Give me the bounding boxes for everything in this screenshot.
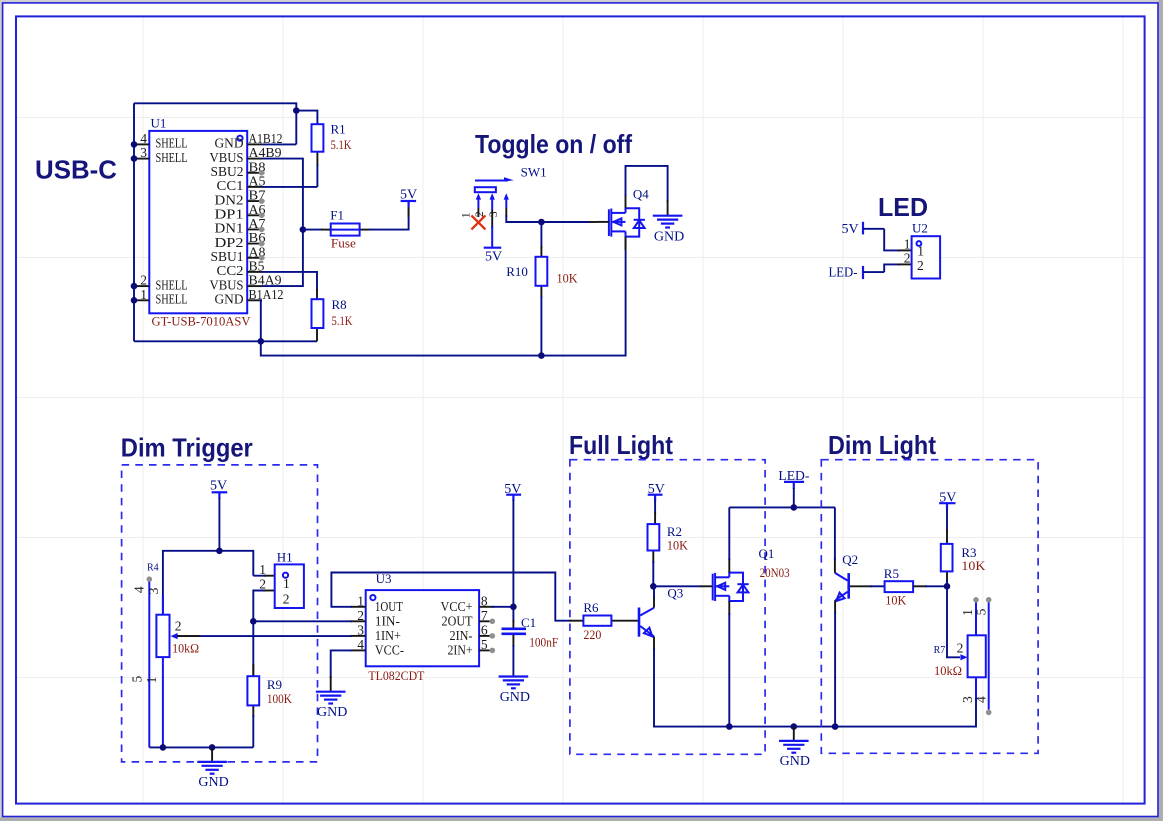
wire LED- to U2 pin2 bbox=[884, 264, 900, 272]
ground (U3) bbox=[316, 692, 347, 721]
wire Q1 source down bbox=[728, 613, 730, 727]
wire 1IN- run bbox=[253, 620, 352, 622]
wire VBUS vertical bbox=[262, 159, 303, 287]
resistor R6 bbox=[570, 600, 639, 642]
svg-text:VBUS: VBUS bbox=[210, 150, 244, 165]
wire H1 pin2 riser bbox=[253, 591, 266, 622]
svg-text:2: 2 bbox=[259, 577, 266, 592]
U1 left pin stubs bbox=[134, 144, 149, 300]
svg-text:VCC-: VCC- bbox=[375, 643, 404, 658]
svg-text:10K: 10K bbox=[961, 558, 986, 573]
junction dot R3 node bbox=[944, 583, 951, 590]
wire gate node to Q4 bbox=[541, 221, 590, 223]
wire wiper 1IN+ run bbox=[177, 635, 352, 637]
svg-text:1IN-: 1IN- bbox=[375, 613, 400, 628]
U1 unconnected pad dots bbox=[259, 170, 265, 261]
svg-text:SW1: SW1 bbox=[521, 165, 547, 180]
svg-text:220: 220 bbox=[583, 627, 601, 642]
junction dots full light bbox=[726, 504, 838, 730]
wire gnd drop rail bbox=[261, 239, 626, 356]
wire Q2 collector up bbox=[834, 558, 836, 573]
svg-text:CC1: CC1 bbox=[217, 178, 244, 193]
svg-text:100nF: 100nF bbox=[529, 634, 558, 649]
svg-text:5: 5 bbox=[130, 675, 145, 682]
wire B1A12 down bbox=[261, 300, 262, 341]
SW1 pin numbers 1 2 3 bbox=[460, 211, 500, 218]
svg-text:R8: R8 bbox=[332, 297, 347, 312]
svg-text:8: 8 bbox=[481, 593, 488, 608]
ground (full light) bbox=[779, 727, 810, 770]
svg-text:1: 1 bbox=[460, 212, 472, 218]
U3 pin names bbox=[375, 599, 473, 658]
ground (Q4) bbox=[653, 216, 684, 245]
wire R7 pin3 to rail bbox=[835, 698, 976, 727]
svg-text:R10: R10 bbox=[506, 264, 528, 279]
svg-text:Full Light: Full Light bbox=[569, 430, 673, 460]
svg-text:2IN-: 2IN- bbox=[450, 628, 473, 643]
dashed box Dim Light bbox=[821, 460, 1038, 754]
svg-text:3: 3 bbox=[146, 587, 161, 594]
svg-text:5V: 5V bbox=[400, 188, 417, 203]
R4 pin numbers rotated bbox=[130, 586, 161, 683]
svg-text:4: 4 bbox=[132, 586, 147, 593]
wire U3 1OUT loop to R6 bbox=[331, 573, 571, 621]
svg-text:5.1K: 5.1K bbox=[332, 313, 353, 328]
power 5V (C1) bbox=[504, 482, 521, 501]
svg-text:1: 1 bbox=[904, 236, 911, 251]
svg-text:4: 4 bbox=[357, 637, 364, 652]
svg-text:10K: 10K bbox=[885, 592, 907, 607]
wire A1B12 to riser bbox=[262, 143, 296, 145]
svg-text:SBU2: SBU2 bbox=[211, 164, 244, 179]
connector H1 bbox=[259, 549, 304, 608]
fuse F1 bbox=[303, 208, 371, 251]
svg-text:GND: GND bbox=[317, 705, 347, 720]
svg-text:2: 2 bbox=[904, 251, 911, 266]
net flag LED- (full light) bbox=[778, 469, 809, 508]
wire Q1 drain to LED- rail bbox=[728, 507, 730, 560]
svg-text:GND: GND bbox=[654, 230, 684, 245]
transistor Q2 bbox=[835, 573, 849, 601]
svg-text:1: 1 bbox=[357, 593, 364, 608]
wire Q2 base to R5 bbox=[850, 585, 872, 587]
junction dots dim trigger bbox=[160, 548, 257, 751]
svg-text:SHELL: SHELL bbox=[156, 292, 188, 307]
U3 pin numbers bbox=[357, 593, 488, 652]
wire 5V to R2 bbox=[654, 500, 656, 514]
svg-text:2: 2 bbox=[357, 608, 364, 623]
wire F1 to 5V bbox=[369, 207, 409, 230]
capacitor C1 bbox=[502, 615, 559, 650]
wire dim trigger bottom rail bbox=[149, 746, 253, 748]
svg-text:Q2: Q2 bbox=[842, 552, 858, 567]
svg-text:10kΩ: 10kΩ bbox=[172, 641, 199, 656]
dashed box Dim Trigger bbox=[122, 465, 318, 762]
wire bottom shell rail bbox=[134, 340, 317, 342]
transistor Q1 bbox=[713, 546, 790, 615]
power 5V (SW1 pin 2) bbox=[484, 248, 502, 265]
svg-text:GND: GND bbox=[198, 775, 228, 790]
svg-text:6: 6 bbox=[481, 622, 488, 637]
wire R1 branch bbox=[296, 111, 317, 125]
svg-text:GND: GND bbox=[215, 136, 244, 151]
svg-text:R9: R9 bbox=[267, 677, 282, 692]
U1 right pad labels bbox=[249, 131, 284, 302]
resistor R9 bbox=[247, 664, 292, 747]
wire Q2 emitter down bbox=[834, 600, 836, 614]
power 5V (full light) bbox=[648, 482, 665, 501]
resistor R8 bbox=[312, 289, 353, 341]
no-connect cross on SW1 pin 1 bbox=[471, 215, 485, 229]
wire 5V down bbox=[218, 498, 220, 551]
svg-text:5V: 5V bbox=[842, 222, 859, 237]
svg-text:GND: GND bbox=[500, 690, 530, 705]
wire top GND run bbox=[134, 103, 296, 144]
svg-text:GND: GND bbox=[780, 754, 810, 769]
wire CC2 to R8 bbox=[262, 272, 317, 291]
svg-text:H1: H1 bbox=[277, 549, 293, 564]
power 5V (dim light) bbox=[939, 491, 956, 510]
wire U3 VCC+ to C1 node bbox=[492, 606, 513, 608]
svg-text:Q1: Q1 bbox=[759, 546, 775, 561]
svg-text:LED-: LED- bbox=[829, 266, 858, 281]
connector U1 body bbox=[149, 116, 251, 329]
svg-text:1OUT: 1OUT bbox=[375, 599, 404, 614]
wire R2 to collector node bbox=[652, 561, 654, 586]
svg-text:2OUT: 2OUT bbox=[442, 613, 474, 628]
net flag 5V (LED) bbox=[842, 222, 885, 237]
svg-text:2IN+: 2IN+ bbox=[448, 643, 473, 658]
svg-text:F1: F1 bbox=[330, 208, 344, 223]
wire Q3 collector up bbox=[653, 596, 655, 608]
wire collector node to Q1 gate bbox=[653, 585, 701, 587]
svg-text:5.1K: 5.1K bbox=[331, 137, 352, 152]
svg-text:7: 7 bbox=[481, 608, 488, 623]
svg-text:USB-C: USB-C bbox=[35, 155, 117, 185]
junction dots toggle bbox=[538, 219, 545, 359]
resistor R3 bbox=[941, 530, 986, 582]
U3 pin stubs bbox=[351, 607, 495, 651]
svg-text:VBUS: VBUS bbox=[210, 277, 244, 292]
wire R3 node down to wiper bbox=[947, 580, 960, 657]
svg-text:R6: R6 bbox=[583, 600, 599, 615]
op-amp U3 bbox=[366, 571, 479, 683]
power 5V (fuse) bbox=[400, 188, 417, 217]
ground (dim trigger) bbox=[197, 747, 228, 790]
R7 pin numbers rotated bbox=[960, 608, 989, 703]
wire U3 VCC- to GND bbox=[331, 650, 352, 678]
svg-text:GT-USB-7010ASV: GT-USB-7010ASV bbox=[152, 314, 252, 329]
power 5V (dim trigger) bbox=[210, 479, 227, 499]
svg-text:2: 2 bbox=[957, 641, 964, 656]
svg-text:3: 3 bbox=[488, 211, 500, 217]
resistor R5 bbox=[884, 566, 947, 607]
svg-text:2: 2 bbox=[283, 592, 290, 607]
svg-text:Fuse: Fuse bbox=[331, 235, 356, 250]
resistor R1 bbox=[312, 122, 352, 187]
svg-text:20N03: 20N03 bbox=[760, 565, 790, 580]
potentiometer R7 bbox=[934, 597, 992, 715]
wire Q4 drain to GND bbox=[626, 166, 668, 202]
svg-text:Dim Light: Dim Light bbox=[828, 430, 936, 460]
wire C1 to GND bbox=[512, 645, 514, 676]
svg-text:R7: R7 bbox=[934, 645, 946, 656]
U3 unconnected pads bbox=[490, 619, 496, 654]
svg-text:R1: R1 bbox=[331, 122, 346, 137]
svg-text:SHELL: SHELL bbox=[156, 277, 188, 292]
svg-text:U2: U2 bbox=[912, 221, 928, 236]
svg-text:SHELL: SHELL bbox=[156, 136, 188, 151]
junction dot collector node bbox=[650, 583, 657, 590]
transistor Q4 bbox=[597, 187, 649, 250]
svg-text:VCC+: VCC+ bbox=[441, 599, 473, 614]
wire Q3 emitter down bbox=[653, 637, 655, 651]
svg-text:10kΩ: 10kΩ bbox=[934, 663, 962, 678]
svg-text:DP1: DP1 bbox=[215, 207, 244, 222]
svg-text:DN2: DN2 bbox=[215, 192, 244, 207]
U1 right pin stubs bbox=[247, 144, 264, 300]
wire 5V to R3 bbox=[946, 509, 948, 533]
net flag LED- bbox=[829, 266, 885, 281]
svg-text:100K: 100K bbox=[267, 691, 293, 706]
svg-text:SHELL: SHELL bbox=[156, 150, 188, 165]
svg-text:10K: 10K bbox=[557, 271, 579, 286]
wire SW1 pin3 to gate node bbox=[506, 215, 541, 222]
wire CC1 to R1 bbox=[262, 186, 317, 188]
svg-text:TL082CDT: TL082CDT bbox=[368, 668, 424, 683]
wire top distribution bbox=[163, 551, 253, 614]
resistor R10 bbox=[506, 246, 578, 298]
svg-text:R4: R4 bbox=[147, 563, 159, 574]
dashed box Full Light bbox=[570, 460, 765, 755]
junction dot C1 node bbox=[510, 604, 517, 611]
svg-text:Q3: Q3 bbox=[667, 586, 683, 601]
svg-text:1: 1 bbox=[144, 677, 159, 684]
svg-text:1: 1 bbox=[259, 562, 266, 577]
resistor R2 bbox=[648, 512, 689, 563]
svg-text:U1: U1 bbox=[151, 116, 167, 131]
svg-text:2: 2 bbox=[917, 258, 924, 273]
U1 right pin names bbox=[210, 136, 244, 307]
svg-text:DP2: DP2 bbox=[215, 235, 244, 250]
svg-text:5: 5 bbox=[481, 637, 488, 652]
svg-text:LED: LED bbox=[878, 192, 928, 222]
svg-text:3: 3 bbox=[357, 622, 364, 637]
svg-text:Q4: Q4 bbox=[633, 187, 649, 202]
wire R10 to bottom rail bbox=[540, 296, 542, 356]
svg-text:5V: 5V bbox=[485, 250, 502, 265]
svg-text:5: 5 bbox=[974, 608, 989, 615]
potentiometer R4 bbox=[147, 563, 201, 748]
svg-text:GND: GND bbox=[215, 292, 244, 307]
wire H1 pin1 bbox=[253, 575, 266, 577]
ground (C1) bbox=[499, 677, 530, 706]
wire to R9 bbox=[252, 621, 254, 677]
svg-text:1: 1 bbox=[283, 576, 290, 591]
wire gate node down to R10 bbox=[540, 222, 542, 248]
U1 left pin names SHELL bbox=[156, 136, 188, 307]
wire LED- top rail bbox=[729, 506, 835, 508]
switch SW1 bbox=[475, 165, 547, 248]
svg-text:Dim Trigger: Dim Trigger bbox=[121, 433, 253, 463]
wire left shell bus bbox=[133, 103, 135, 341]
svg-text:CC2: CC2 bbox=[217, 263, 244, 278]
U1 left pin numbers 4 3 2 1 bbox=[140, 131, 147, 302]
transistor Q3 bbox=[639, 608, 654, 637]
svg-text:C1: C1 bbox=[521, 615, 536, 630]
svg-text:SBU1: SBU1 bbox=[211, 249, 244, 264]
connector U2 bbox=[898, 221, 940, 279]
wire 5V to C1 bbox=[512, 500, 514, 622]
svg-text:Toggle on / off: Toggle on / off bbox=[475, 129, 632, 159]
svg-text:1IN+: 1IN+ bbox=[375, 628, 401, 643]
svg-text:2: 2 bbox=[175, 619, 182, 634]
svg-text:DN1: DN1 bbox=[215, 221, 244, 236]
svg-text:R5: R5 bbox=[884, 566, 899, 581]
junction dots USB-C bbox=[131, 107, 307, 344]
wire 5V to U2 pin1 bbox=[884, 229, 900, 251]
svg-text:10K: 10K bbox=[667, 538, 689, 553]
svg-text:1: 1 bbox=[917, 244, 924, 259]
